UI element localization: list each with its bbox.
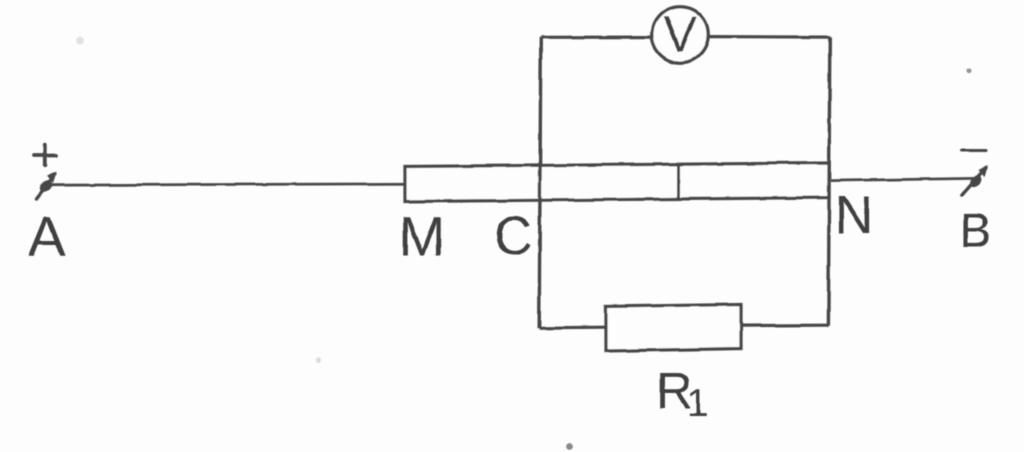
- right vertical wire at N: [828, 37, 829, 325]
- wire A to M: [50, 184, 406, 185]
- svg-text:M: M: [399, 205, 446, 268]
- svg-text:V: V: [663, 6, 697, 63]
- voltmeter V circle: [652, 6, 708, 62]
- background speck right: [966, 68, 971, 73]
- background speck bottom-center: [567, 444, 574, 451]
- plus sign at terminal A: [34, 145, 57, 166]
- minus sign at terminal B: [962, 149, 987, 152]
- slider wire C (vertical): [539, 37, 541, 328]
- wire N to B: [831, 178, 974, 180]
- svg-text:B: B: [959, 205, 991, 258]
- svg-text:1: 1: [687, 383, 708, 425]
- background smudge top-left: [76, 36, 84, 44]
- bottom wire right segment: [740, 324, 828, 328]
- svg-text:A: A: [28, 205, 66, 268]
- rheostat inner divider: [677, 163, 680, 198]
- top wire right segment: [710, 35, 831, 39]
- svg-text:C: C: [494, 206, 533, 266]
- svg-text:N: N: [835, 185, 874, 245]
- top wire left segment: [541, 35, 651, 38]
- rheostat body M-N: [405, 163, 829, 202]
- bottom wire left segment: [539, 326, 607, 330]
- terminal arrow B: [962, 165, 988, 195]
- background faint dot lower-left: [315, 357, 320, 362]
- resistor R1 body: [606, 304, 741, 351]
- terminal arrow A: [36, 172, 57, 200]
